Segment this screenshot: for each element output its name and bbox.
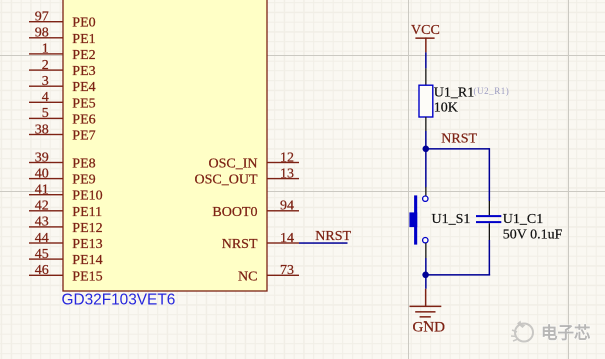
svg-text:14: 14 <box>280 231 294 246</box>
power port VCC <box>411 23 440 53</box>
svg-text:NRST: NRST <box>441 132 477 147</box>
wire node A to switch <box>425 149 427 188</box>
svg-text:44: 44 <box>35 231 49 246</box>
pin 38 PE7 <box>29 122 96 143</box>
pin 4 PE5 <box>29 90 96 111</box>
svg-text:12: 12 <box>280 150 294 165</box>
svg-text:GND: GND <box>413 319 446 335</box>
svg-text:PE4: PE4 <box>72 80 95 95</box>
resistor alternate designator label (U2_R1) <box>474 86 510 96</box>
svg-text:NRST: NRST <box>222 237 258 252</box>
resistor designator label U1_R1 <box>434 85 474 100</box>
pin 42 PE11 <box>29 199 102 220</box>
svg-text:10K: 10K <box>434 100 458 115</box>
pin 39 PE8 <box>29 150 96 171</box>
resistor value label 10K <box>434 100 458 115</box>
svg-text:(U2_R1): (U2_R1) <box>474 86 510 96</box>
svg-text:4: 4 <box>42 90 49 105</box>
svg-text:PE12: PE12 <box>72 221 102 236</box>
pin 2 PE3 <box>29 58 96 79</box>
svg-text:U1_R1: U1_R1 <box>434 85 474 100</box>
svg-text:45: 45 <box>35 247 49 262</box>
svg-text:OSC_OUT: OSC_OUT <box>194 173 257 188</box>
wire node B to ground <box>425 275 427 289</box>
svg-text:1: 1 <box>42 42 49 57</box>
svg-text:73: 73 <box>280 263 294 278</box>
switch U1_S1 bottom pin <box>425 243 426 258</box>
switch U1_S1 actuator bar <box>414 195 417 244</box>
wire capacitor branch vertical <box>489 148 491 201</box>
svg-text:PE2: PE2 <box>72 48 95 63</box>
svg-text:PE6: PE6 <box>72 112 95 127</box>
junction node B <box>422 272 429 279</box>
svg-text:43: 43 <box>35 215 49 230</box>
IC designator text GD32F103VET6 <box>62 292 176 309</box>
svg-text:94: 94 <box>280 199 294 214</box>
svg-text:NRST: NRST <box>315 229 351 244</box>
svg-text:13: 13 <box>280 166 294 181</box>
svg-text:98: 98 <box>35 26 49 41</box>
svg-text:PE0: PE0 <box>72 16 95 31</box>
watermark logo circle <box>511 321 533 342</box>
wire R1 to node A <box>425 131 427 149</box>
wire from pin 14 to NRST net label <box>299 242 348 244</box>
pin 3 PE4 <box>29 74 96 95</box>
pin 98 PE1 <box>29 26 96 47</box>
svg-text:PE10: PE10 <box>72 189 102 204</box>
switch U1_S1 top pin <box>425 187 426 196</box>
switch U1_S1 plunger <box>409 212 417 227</box>
pin 40 PE9 <box>29 166 96 187</box>
capacitor U1_C1 plates <box>476 215 501 223</box>
svg-text:电子芯: 电子芯 <box>541 323 591 343</box>
svg-text:PE1: PE1 <box>72 32 95 47</box>
capacitor value label 50V 0.1uF <box>503 227 563 242</box>
watermark text 电子芯 <box>541 323 591 343</box>
junction node A <box>423 146 430 153</box>
pin 73 NC <box>238 263 299 284</box>
resistor U1_R1 top pin <box>425 68 426 85</box>
capacitor U1_C1 bottom pin <box>489 223 490 240</box>
switch U1_S1 bottom terminal circle <box>423 238 428 243</box>
pin 14 NRST <box>222 231 299 252</box>
pin 12 OSC_IN <box>208 150 299 171</box>
svg-text:PE3: PE3 <box>72 64 95 79</box>
svg-text:PE8: PE8 <box>72 157 95 172</box>
svg-text:42: 42 <box>35 199 49 214</box>
svg-text:40: 40 <box>35 166 49 181</box>
resistor U1_R1 bottom pin <box>425 117 426 131</box>
pin 13 OSC_OUT <box>194 166 299 187</box>
svg-text:PE9: PE9 <box>72 173 95 188</box>
svg-text:5: 5 <box>42 106 49 121</box>
svg-text:BOOT0: BOOT0 <box>212 205 257 220</box>
ground label GND <box>413 319 446 335</box>
resistor U1_R1 body <box>419 85 433 117</box>
svg-text:NC: NC <box>238 269 257 284</box>
svg-text:38: 38 <box>35 122 49 137</box>
pin 41 PE10 <box>29 183 103 204</box>
wire VCC to R1 <box>425 52 427 68</box>
pin 97 PE0 <box>29 10 96 31</box>
net label NRST (at pin 14) <box>315 229 351 244</box>
svg-text:PE5: PE5 <box>72 96 95 111</box>
wire capacitor to node B <box>489 240 491 276</box>
IC U1 body GD32F103VET6 <box>63 0 267 291</box>
switch U1_S1 top terminal circle <box>423 196 428 201</box>
switch designator label U1_S1 <box>432 212 471 227</box>
net label NRST (at node A) <box>441 132 477 147</box>
svg-text:OSC_IN: OSC_IN <box>208 157 257 172</box>
pin 1 PE2 <box>29 42 96 63</box>
svg-text:PE11: PE11 <box>72 205 102 220</box>
pin 44 PE13 <box>29 231 103 252</box>
svg-text:PE14: PE14 <box>72 253 102 268</box>
svg-text:46: 46 <box>35 263 49 278</box>
svg-text:VCC: VCC <box>411 23 440 38</box>
pin 5 PE6 <box>29 106 96 127</box>
svg-text:GD32F103VET6: GD32F103VET6 <box>62 292 176 309</box>
pin 43 PE12 <box>29 215 103 236</box>
ground symbol GND <box>410 289 442 323</box>
svg-text:PE13: PE13 <box>72 237 102 252</box>
pin 94 BOOT0 <box>212 199 299 220</box>
svg-text:U1_S1: U1_S1 <box>432 212 471 227</box>
svg-text:U1_C1: U1_C1 <box>503 212 543 227</box>
pin 45 PE14 <box>29 247 103 268</box>
pin 46 PE15 <box>29 263 103 284</box>
wire switch to node B <box>425 258 427 275</box>
svg-text:41: 41 <box>35 183 49 198</box>
svg-text:97: 97 <box>35 10 49 25</box>
capacitor U1_C1 top pin <box>489 201 490 215</box>
svg-text:50V 0.1uF: 50V 0.1uF <box>503 227 563 242</box>
wire node A to capacitor branch <box>426 148 490 150</box>
svg-text:PE15: PE15 <box>72 269 102 284</box>
capacitor designator label U1_C1 <box>503 212 543 227</box>
svg-text:PE7: PE7 <box>72 129 95 144</box>
wire node B to capacitor branch <box>426 274 491 276</box>
svg-text:2: 2 <box>42 58 49 73</box>
svg-text:3: 3 <box>42 74 49 89</box>
svg-text:39: 39 <box>35 150 49 165</box>
